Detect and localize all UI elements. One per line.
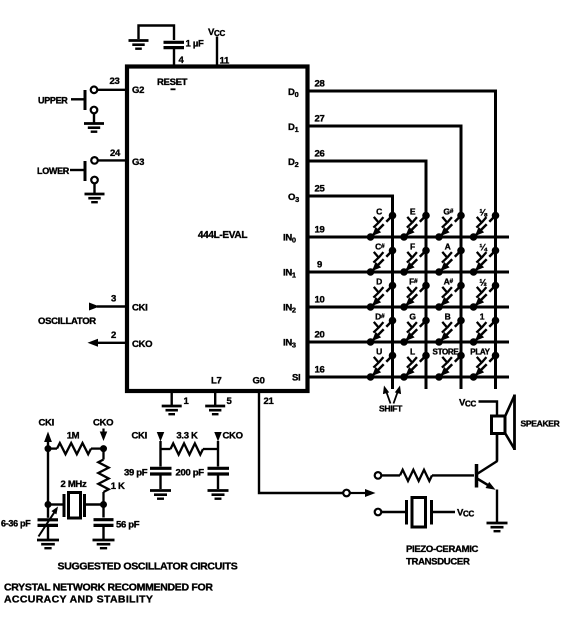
pin name G2 — [132, 85, 144, 96]
pin 3 number label — [111, 294, 116, 305]
resistor R2 value label 1M — [67, 431, 80, 442]
svg-text:C: C — [376, 207, 382, 217]
wire IN1 row line — [308, 271, 510, 274]
speaker LS1 driver box — [492, 416, 506, 434]
key switch S6 "F" — [401, 242, 430, 276]
pin 26 number label — [315, 149, 325, 160]
svg-text:19: 19 — [315, 225, 325, 236]
capacitor C5 value label 200 pF — [176, 468, 205, 479]
svg-text:39 pF: 39 pF — [124, 468, 148, 479]
svg-text:200 pF: 200 pF — [176, 468, 205, 479]
resistor R2 1M — [48, 443, 104, 454]
svg-text:LOWER: LOWER — [37, 166, 70, 176]
IC U1 part number label 444L-EVAL — [198, 230, 248, 241]
pin 27 number label — [315, 114, 325, 125]
svg-text:23: 23 — [110, 76, 120, 87]
capacitor C4 value label 39 pF — [124, 468, 148, 479]
svg-text:CKI: CKI — [39, 418, 54, 429]
key switch S11 "A#" — [436, 277, 465, 311]
osc1 CKI label — [39, 418, 54, 429]
wire SI row line — [308, 376, 510, 379]
pin 5 number label — [227, 396, 233, 407]
svg-text:CKO: CKO — [132, 339, 152, 350]
osc1 CKO lead with down arrow — [100, 429, 108, 442]
resistor R3 1K — [98, 449, 108, 505]
LOWER key label — [37, 166, 70, 176]
wire from ground to capacitor C1 top — [139, 26, 175, 41]
pin 23 number label — [110, 76, 120, 87]
wire SW-LOWER contact to ground — [93, 183, 95, 193]
pin name IN2 — [283, 303, 296, 315]
svg-text:SHIFT: SHIFT — [379, 404, 403, 414]
key switch S4 "⅛" — [470, 208, 499, 241]
SHIFT pointer arrow to key L — [394, 386, 402, 404]
svg-text:OSCILLATOR: OSCILLATOR — [38, 316, 96, 327]
capacitor C2 value label 6-36 pF — [1, 519, 31, 529]
wire IN3 row line — [308, 341, 510, 344]
wire SW-UPPER contact to ground — [93, 113, 95, 123]
wire piezo to VCC — [433, 511, 455, 513]
direction arrow on G0 wire — [350, 489, 376, 497]
wire out of pin 2 CKO with output arrow — [88, 339, 128, 347]
pin name RESET — [157, 77, 188, 89]
svg-text:28: 28 — [315, 79, 325, 90]
svg-text:CKO: CKO — [93, 418, 113, 429]
key switch S16 "1" — [470, 312, 499, 346]
pin 1 number label — [184, 396, 190, 407]
crystal Y1 2 MHz — [48, 493, 104, 519]
svg-text:G: G — [409, 312, 416, 322]
wire IN0 row line — [308, 236, 510, 239]
key switch S14 "G" — [401, 312, 430, 346]
svg-text:PIEZO-CERAMIC: PIEZO-CERAMIC — [406, 544, 479, 555]
key switch S19 "STORE" — [433, 348, 465, 381]
key switch S15 "B" — [436, 312, 465, 346]
osc1 node B junction dot — [101, 446, 107, 452]
ground at reset capacitor — [129, 41, 149, 49]
pin 20 number label — [315, 330, 325, 341]
svg-text:D: D — [376, 277, 382, 287]
svg-text:U: U — [376, 347, 382, 357]
transistor Q1 emitter lead with arrow — [477, 479, 497, 523]
wire VCC to speaker — [479, 402, 498, 417]
svg-text:UPPER: UPPER — [38, 95, 68, 105]
osc2 CKI lead with down arrow — [157, 432, 165, 467]
connector terminal on G0 wire — [343, 490, 350, 497]
osc1 CKI lead with up arrow — [44, 432, 52, 505]
svg-text:CKO: CKO — [223, 431, 243, 442]
wire speaker to Q1 collector — [496, 434, 498, 461]
pin name D0 — [288, 87, 299, 99]
key switch S20 "PLAY" — [470, 348, 499, 381]
ground below SW-UPPER — [84, 124, 104, 132]
wire IN2 row line — [308, 306, 510, 309]
wire D2 row to column — [308, 161, 427, 389]
svg-text:CKI: CKI — [132, 303, 147, 314]
ground below C4 — [150, 491, 171, 499]
svg-text:CKI: CKI — [132, 431, 147, 442]
osc1 node D junction dot — [101, 502, 107, 508]
speaker LS1 cone — [505, 395, 515, 451]
osc2 CKI label — [132, 431, 147, 442]
svg-text:56 pF: 56 pF — [116, 520, 140, 531]
pin 25 number label — [315, 184, 326, 195]
svg-text:TRANSDUCER: TRANSDUCER — [406, 557, 470, 568]
resistor R1 (base) — [400, 470, 432, 481]
pin name SI — [292, 373, 300, 384]
resistor R4 value label 3.3 K — [176, 431, 198, 442]
SHIFT pointer arrow to key U — [383, 386, 391, 404]
svg-text:2 MHz: 2 MHz — [61, 479, 87, 490]
svg-text:27: 27 — [315, 114, 325, 125]
ground below C3 — [93, 540, 115, 548]
svg-text:1: 1 — [480, 312, 485, 322]
ground at pin 1 — [162, 406, 182, 414]
pin name G0 — [253, 376, 265, 387]
pushbutton SW-LOWER bottom contact — [91, 177, 98, 184]
pushbutton SW-LOWER top contact — [91, 157, 98, 164]
VCC supply label (speaker) — [459, 398, 477, 409]
ground below SW-LOWER — [85, 194, 105, 202]
pin name D1 — [288, 122, 299, 134]
pin 11 number label — [220, 56, 230, 67]
svg-text:G0: G0 — [253, 376, 265, 387]
svg-text:ACCURACY AND STABILITY: ACCURACY AND STABILITY — [4, 594, 153, 606]
capacitor C3 56 pF — [94, 505, 114, 540]
svg-text:9: 9 — [317, 260, 322, 271]
osc1 CKO label — [93, 418, 113, 429]
pin name CKO — [132, 339, 152, 350]
svg-text:RESET: RESET — [157, 77, 188, 88]
pin name IN1 — [283, 268, 296, 280]
wire D1 row to column — [308, 126, 462, 389]
pin 21 number label — [264, 396, 275, 407]
VCC supply label (top) — [208, 27, 226, 38]
pin 2 number label — [111, 330, 116, 341]
key switch S2 "E" — [401, 207, 430, 241]
wire terminal to piezo — [381, 511, 405, 513]
key switch S8 "¼" — [470, 243, 499, 276]
pin name O3 — [288, 192, 299, 204]
pin 24 number label — [110, 148, 121, 159]
svg-text:E: E — [410, 207, 416, 217]
wire from pin 21 G0 to connector point — [259, 391, 343, 493]
key switch S12 "½" — [470, 278, 499, 311]
VCC supply label (piezo) — [457, 508, 475, 519]
pin name G3 — [132, 157, 144, 168]
svg-text:VCC: VCC — [208, 27, 226, 38]
ground at pin 5 — [205, 406, 225, 414]
key switch S7 "A" — [436, 242, 465, 276]
svg-text:444L-EVAL: 444L-EVAL — [198, 230, 248, 241]
crystal Y1 value label 2 MHz — [61, 479, 87, 490]
svg-text:26: 26 — [315, 149, 325, 160]
capacitor C1 1uF plates — [164, 42, 185, 47]
svg-text:2: 2 — [111, 330, 116, 341]
wire pin 5 to ground — [214, 391, 216, 406]
svg-text:PLAY: PLAY — [470, 348, 490, 357]
wire SW-UPPER to pin 23 G2 — [97, 89, 127, 91]
PIEZO-CERAMIC label — [406, 544, 479, 555]
svg-text:3: 3 — [111, 294, 116, 305]
caption CRYSTAL NETWORK RECOMMENDED FOR — [4, 582, 213, 594]
pin 9 number label — [317, 260, 322, 271]
pushbutton SW-UPPER bottom contact — [91, 107, 98, 114]
transistor Q1 collector lead — [477, 434, 497, 474]
piezo-ceramic transducer X1 — [407, 498, 432, 528]
wire resistor R1 to transistor Q1 base — [432, 474, 474, 476]
svg-text:G3: G3 — [132, 157, 144, 168]
TRANSDUCER label — [406, 557, 470, 568]
capacitor C5 200 pF — [208, 468, 230, 489]
pushbutton SW-LOWER actuator bar — [70, 161, 85, 181]
terminal to piezo transducer — [375, 509, 382, 516]
pin name IN0 — [283, 233, 296, 245]
svg-text:B: B — [445, 312, 451, 322]
key switch S1 "C" — [367, 207, 396, 241]
SPEAKER label — [521, 419, 560, 429]
svg-text:1M: 1M — [67, 431, 80, 442]
key switch S9 "D" — [367, 277, 396, 311]
key switch S13 "D#" — [367, 312, 396, 346]
svg-text:⅛: ⅛ — [479, 208, 487, 218]
pin name CKI — [132, 303, 147, 314]
pin name IN3 — [283, 338, 296, 350]
wire SW-LOWER to pin 24 G3 — [98, 159, 127, 161]
svg-text:24: 24 — [110, 148, 121, 159]
osc1 node A junction dot — [45, 446, 51, 452]
svg-text:VCC: VCC — [459, 398, 477, 409]
svg-text:11: 11 — [220, 56, 230, 67]
pin 19 number label — [315, 225, 325, 236]
IC U1 444L-EVAL body outline — [127, 67, 308, 392]
capacitor C3 value label 56 pF — [116, 520, 140, 531]
svg-text:STORE: STORE — [433, 348, 460, 357]
caption ACCURACY AND STABILITY — [4, 594, 153, 606]
capacitor C1 value label 1 uF — [186, 39, 204, 50]
pin 4 number label — [179, 55, 185, 66]
key switch S3 "G#" — [436, 207, 465, 241]
svg-text:6-36 pF: 6-36 pF — [1, 519, 31, 529]
svg-text:20: 20 — [315, 330, 325, 341]
svg-text:SPEAKER: SPEAKER — [521, 419, 560, 429]
wire pin 1 to ground — [170, 391, 172, 406]
terminal to base resistor — [375, 472, 382, 479]
svg-text:16: 16 — [315, 365, 325, 376]
svg-text:SI: SI — [292, 373, 300, 384]
pin 28 number label — [315, 79, 325, 90]
UPPER key label — [38, 95, 68, 105]
svg-text:A: A — [445, 242, 451, 252]
svg-text:21: 21 — [264, 396, 275, 407]
svg-text:½: ½ — [479, 278, 487, 288]
osc1 node C junction dot — [45, 502, 51, 508]
key switch S17 "U" — [367, 347, 396, 381]
variable capacitor C2 6-36 pF — [38, 505, 59, 540]
ground below C2 — [37, 540, 59, 548]
svg-text:3.3 K: 3.3 K — [176, 431, 198, 442]
svg-text:L: L — [410, 347, 415, 357]
pin name L7 — [211, 376, 222, 387]
osc2 CKO label — [223, 431, 243, 442]
resistor R4 3.3 K — [161, 443, 219, 454]
caption SUGGESTED OSCILLATOR CIRCUITS — [58, 561, 238, 573]
pin 16 number label — [315, 365, 325, 376]
wire terminal to resistor R1 — [381, 474, 400, 476]
resistor R3 value label 1 K — [111, 481, 125, 492]
pushbutton SW-UPPER actuator bar — [71, 90, 85, 110]
key switch S10 "F#" — [401, 277, 430, 311]
svg-text:VCC: VCC — [457, 508, 475, 519]
ground at transistor Q1 emitter — [487, 523, 508, 531]
svg-text:G2: G2 — [132, 85, 144, 96]
pushbutton SW-UPPER top contact — [91, 87, 98, 94]
svg-text:F: F — [410, 242, 415, 252]
SHIFT label — [379, 404, 403, 414]
svg-text:1 µF: 1 µF — [186, 39, 204, 50]
svg-text:1 K: 1 K — [111, 481, 125, 492]
transistor Q1 base bar — [475, 464, 479, 488]
ground below C5 — [208, 491, 229, 499]
svg-text:SUGGESTED OSCILLATOR CIRCUITS: SUGGESTED OSCILLATOR CIRCUITS — [58, 561, 238, 573]
pin 10 number label — [315, 295, 325, 306]
pin name D2 — [288, 157, 299, 169]
key switch S18 "L" — [401, 347, 430, 381]
svg-text:CRYSTAL NETWORK RECOMMENDED FO: CRYSTAL NETWORK RECOMMENDED FOR — [4, 582, 213, 594]
wire into pin 3 CKI with input arrow — [89, 303, 127, 311]
svg-text:L7: L7 — [211, 376, 222, 387]
capacitor C4 39 pF — [150, 468, 172, 489]
svg-text:10: 10 — [315, 295, 325, 306]
wire D0 row to column — [308, 91, 496, 389]
wire VCC to pin 11 — [216, 37, 218, 67]
key switch S5 "C#" — [367, 242, 396, 276]
svg-text:25: 25 — [315, 184, 326, 195]
wire O3 row to column — [308, 196, 393, 389]
OSCILLATOR label — [38, 316, 96, 327]
osc2 CKO lead with down arrow — [214, 432, 222, 467]
wire capacitor C1 to pin 4 RESET — [173, 49, 175, 67]
